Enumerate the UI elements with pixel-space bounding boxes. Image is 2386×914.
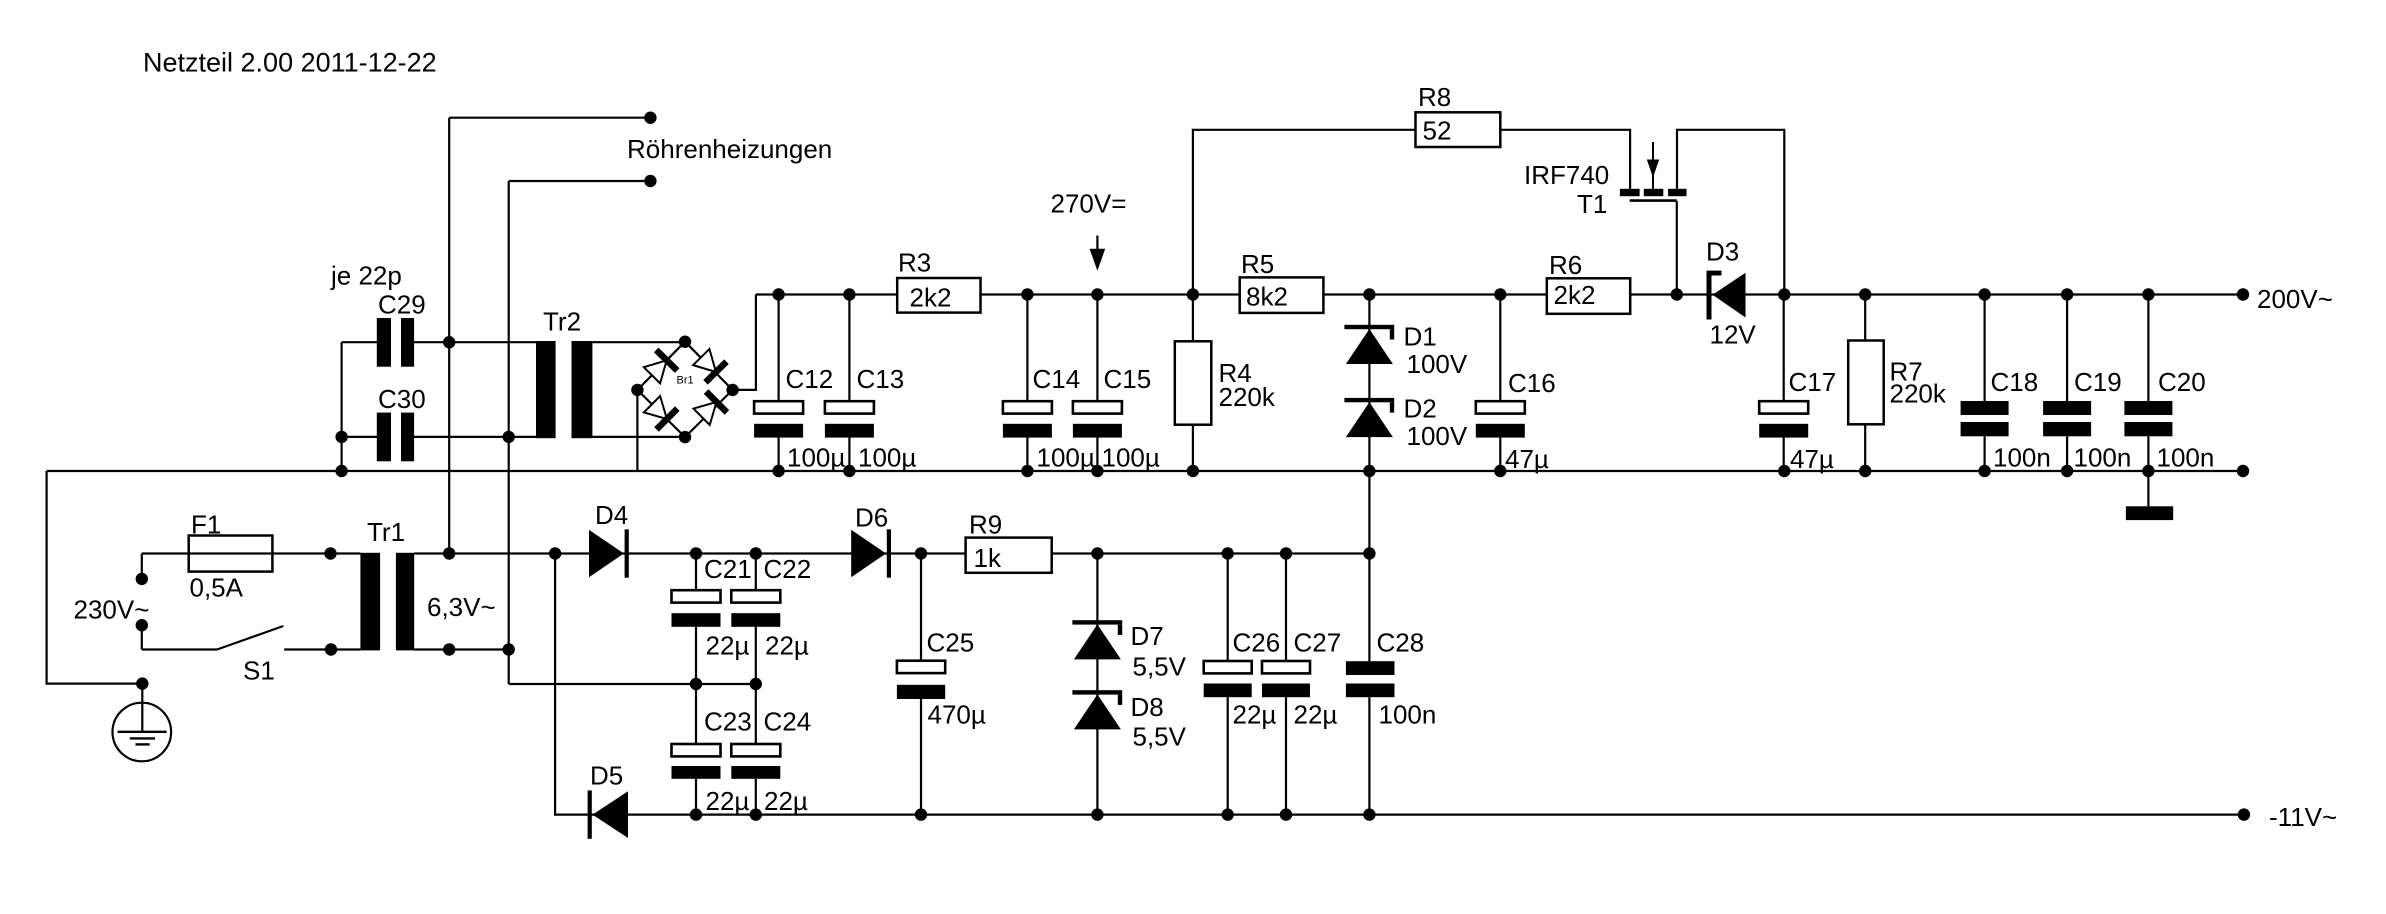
svg-text:6,3V~: 6,3V~ xyxy=(427,592,496,622)
svg-text:D8: D8 xyxy=(1131,692,1164,722)
svg-text:C27: C27 xyxy=(1294,628,1342,658)
svg-text:100µ: 100µ xyxy=(787,443,845,473)
svg-text:52: 52 xyxy=(1423,116,1452,146)
svg-text:C17: C17 xyxy=(1789,367,1837,397)
svg-text:0,5A: 0,5A xyxy=(190,573,244,603)
svg-text:22µ: 22µ xyxy=(765,631,809,661)
svg-text:5,5V: 5,5V xyxy=(1133,722,1187,752)
svg-text:100n: 100n xyxy=(2157,443,2215,473)
svg-text:D2: D2 xyxy=(1404,394,1437,424)
svg-text:22µ: 22µ xyxy=(1294,700,1338,730)
svg-text:D1: D1 xyxy=(1404,321,1437,351)
svg-text:470µ: 470µ xyxy=(928,700,986,730)
svg-text:R8: R8 xyxy=(1418,82,1451,112)
svg-text:2k2: 2k2 xyxy=(910,283,952,313)
svg-text:Tr1: Tr1 xyxy=(367,517,405,547)
svg-text:C18: C18 xyxy=(1991,367,2039,397)
svg-text:2k2: 2k2 xyxy=(1554,280,1596,310)
svg-text:C30: C30 xyxy=(378,384,426,414)
svg-text:-11V~: -11V~ xyxy=(2269,802,2337,832)
svg-text:C25: C25 xyxy=(927,628,975,658)
svg-text:Tr2: Tr2 xyxy=(543,307,581,337)
svg-text:D3: D3 xyxy=(1706,237,1739,267)
svg-text:R6: R6 xyxy=(1549,250,1582,280)
svg-text:C15: C15 xyxy=(1104,364,1152,394)
svg-text:C28: C28 xyxy=(1377,628,1425,658)
svg-text:220k: 220k xyxy=(1890,379,1947,409)
svg-text:C12: C12 xyxy=(786,364,834,394)
svg-text:C20: C20 xyxy=(2158,367,2206,397)
svg-text:R5: R5 xyxy=(1241,249,1274,279)
svg-text:C29: C29 xyxy=(378,290,426,320)
svg-text:IRF740: IRF740 xyxy=(1524,160,1609,190)
svg-text:220k: 220k xyxy=(1219,382,1276,412)
svg-text:D7: D7 xyxy=(1131,621,1164,651)
svg-text:47µ: 47µ xyxy=(1790,444,1834,474)
svg-text:C21: C21 xyxy=(704,554,752,584)
svg-text:C24: C24 xyxy=(764,707,812,737)
svg-text:100µ: 100µ xyxy=(858,443,916,473)
svg-text:R9: R9 xyxy=(969,510,1002,540)
svg-text:Br1: Br1 xyxy=(677,375,694,387)
svg-text:C14: C14 xyxy=(1033,364,1081,394)
svg-text:C16: C16 xyxy=(1508,368,1556,398)
svg-text:je 22p: je 22p xyxy=(330,261,402,291)
svg-text:22µ: 22µ xyxy=(706,786,750,816)
svg-text:5,5V: 5,5V xyxy=(1133,652,1187,682)
svg-text:C19: C19 xyxy=(2074,367,2122,397)
svg-text:Netzteil 2.00 2011-12-22: Netzteil 2.00 2011-12-22 xyxy=(143,48,437,78)
svg-text:270V=: 270V= xyxy=(1051,189,1127,219)
svg-text:T1: T1 xyxy=(1577,189,1607,219)
svg-text:230V~: 230V~ xyxy=(74,595,150,625)
svg-text:200V~: 200V~ xyxy=(2257,284,2333,314)
svg-text:100n: 100n xyxy=(2074,443,2132,473)
svg-text:100µ: 100µ xyxy=(1037,443,1095,473)
svg-text:Röhrenheizungen: Röhrenheizungen xyxy=(627,134,832,164)
svg-text:1k: 1k xyxy=(974,543,1002,573)
svg-text:22µ: 22µ xyxy=(1233,700,1277,730)
svg-text:C13: C13 xyxy=(857,364,905,394)
svg-text:C22: C22 xyxy=(764,554,812,584)
svg-text:R3: R3 xyxy=(898,248,931,278)
svg-text:D6: D6 xyxy=(855,503,888,533)
svg-text:C23: C23 xyxy=(704,707,752,737)
svg-text:D4: D4 xyxy=(595,500,628,530)
svg-text:22µ: 22µ xyxy=(764,786,808,816)
svg-text:100V: 100V xyxy=(1407,421,1468,451)
svg-text:C26: C26 xyxy=(1233,628,1281,658)
svg-text:8k2: 8k2 xyxy=(1246,282,1288,312)
svg-text:S1: S1 xyxy=(243,656,275,686)
svg-text:12V: 12V xyxy=(1710,320,1757,350)
svg-text:100n: 100n xyxy=(1993,443,2051,473)
svg-text:F1: F1 xyxy=(191,510,221,540)
svg-text:100n: 100n xyxy=(1379,700,1437,730)
svg-text:D5: D5 xyxy=(590,760,623,790)
svg-text:100V: 100V xyxy=(1407,349,1468,379)
svg-text:47µ: 47µ xyxy=(1505,444,1549,474)
svg-text:100µ: 100µ xyxy=(1102,443,1160,473)
svg-text:22µ: 22µ xyxy=(706,631,750,661)
